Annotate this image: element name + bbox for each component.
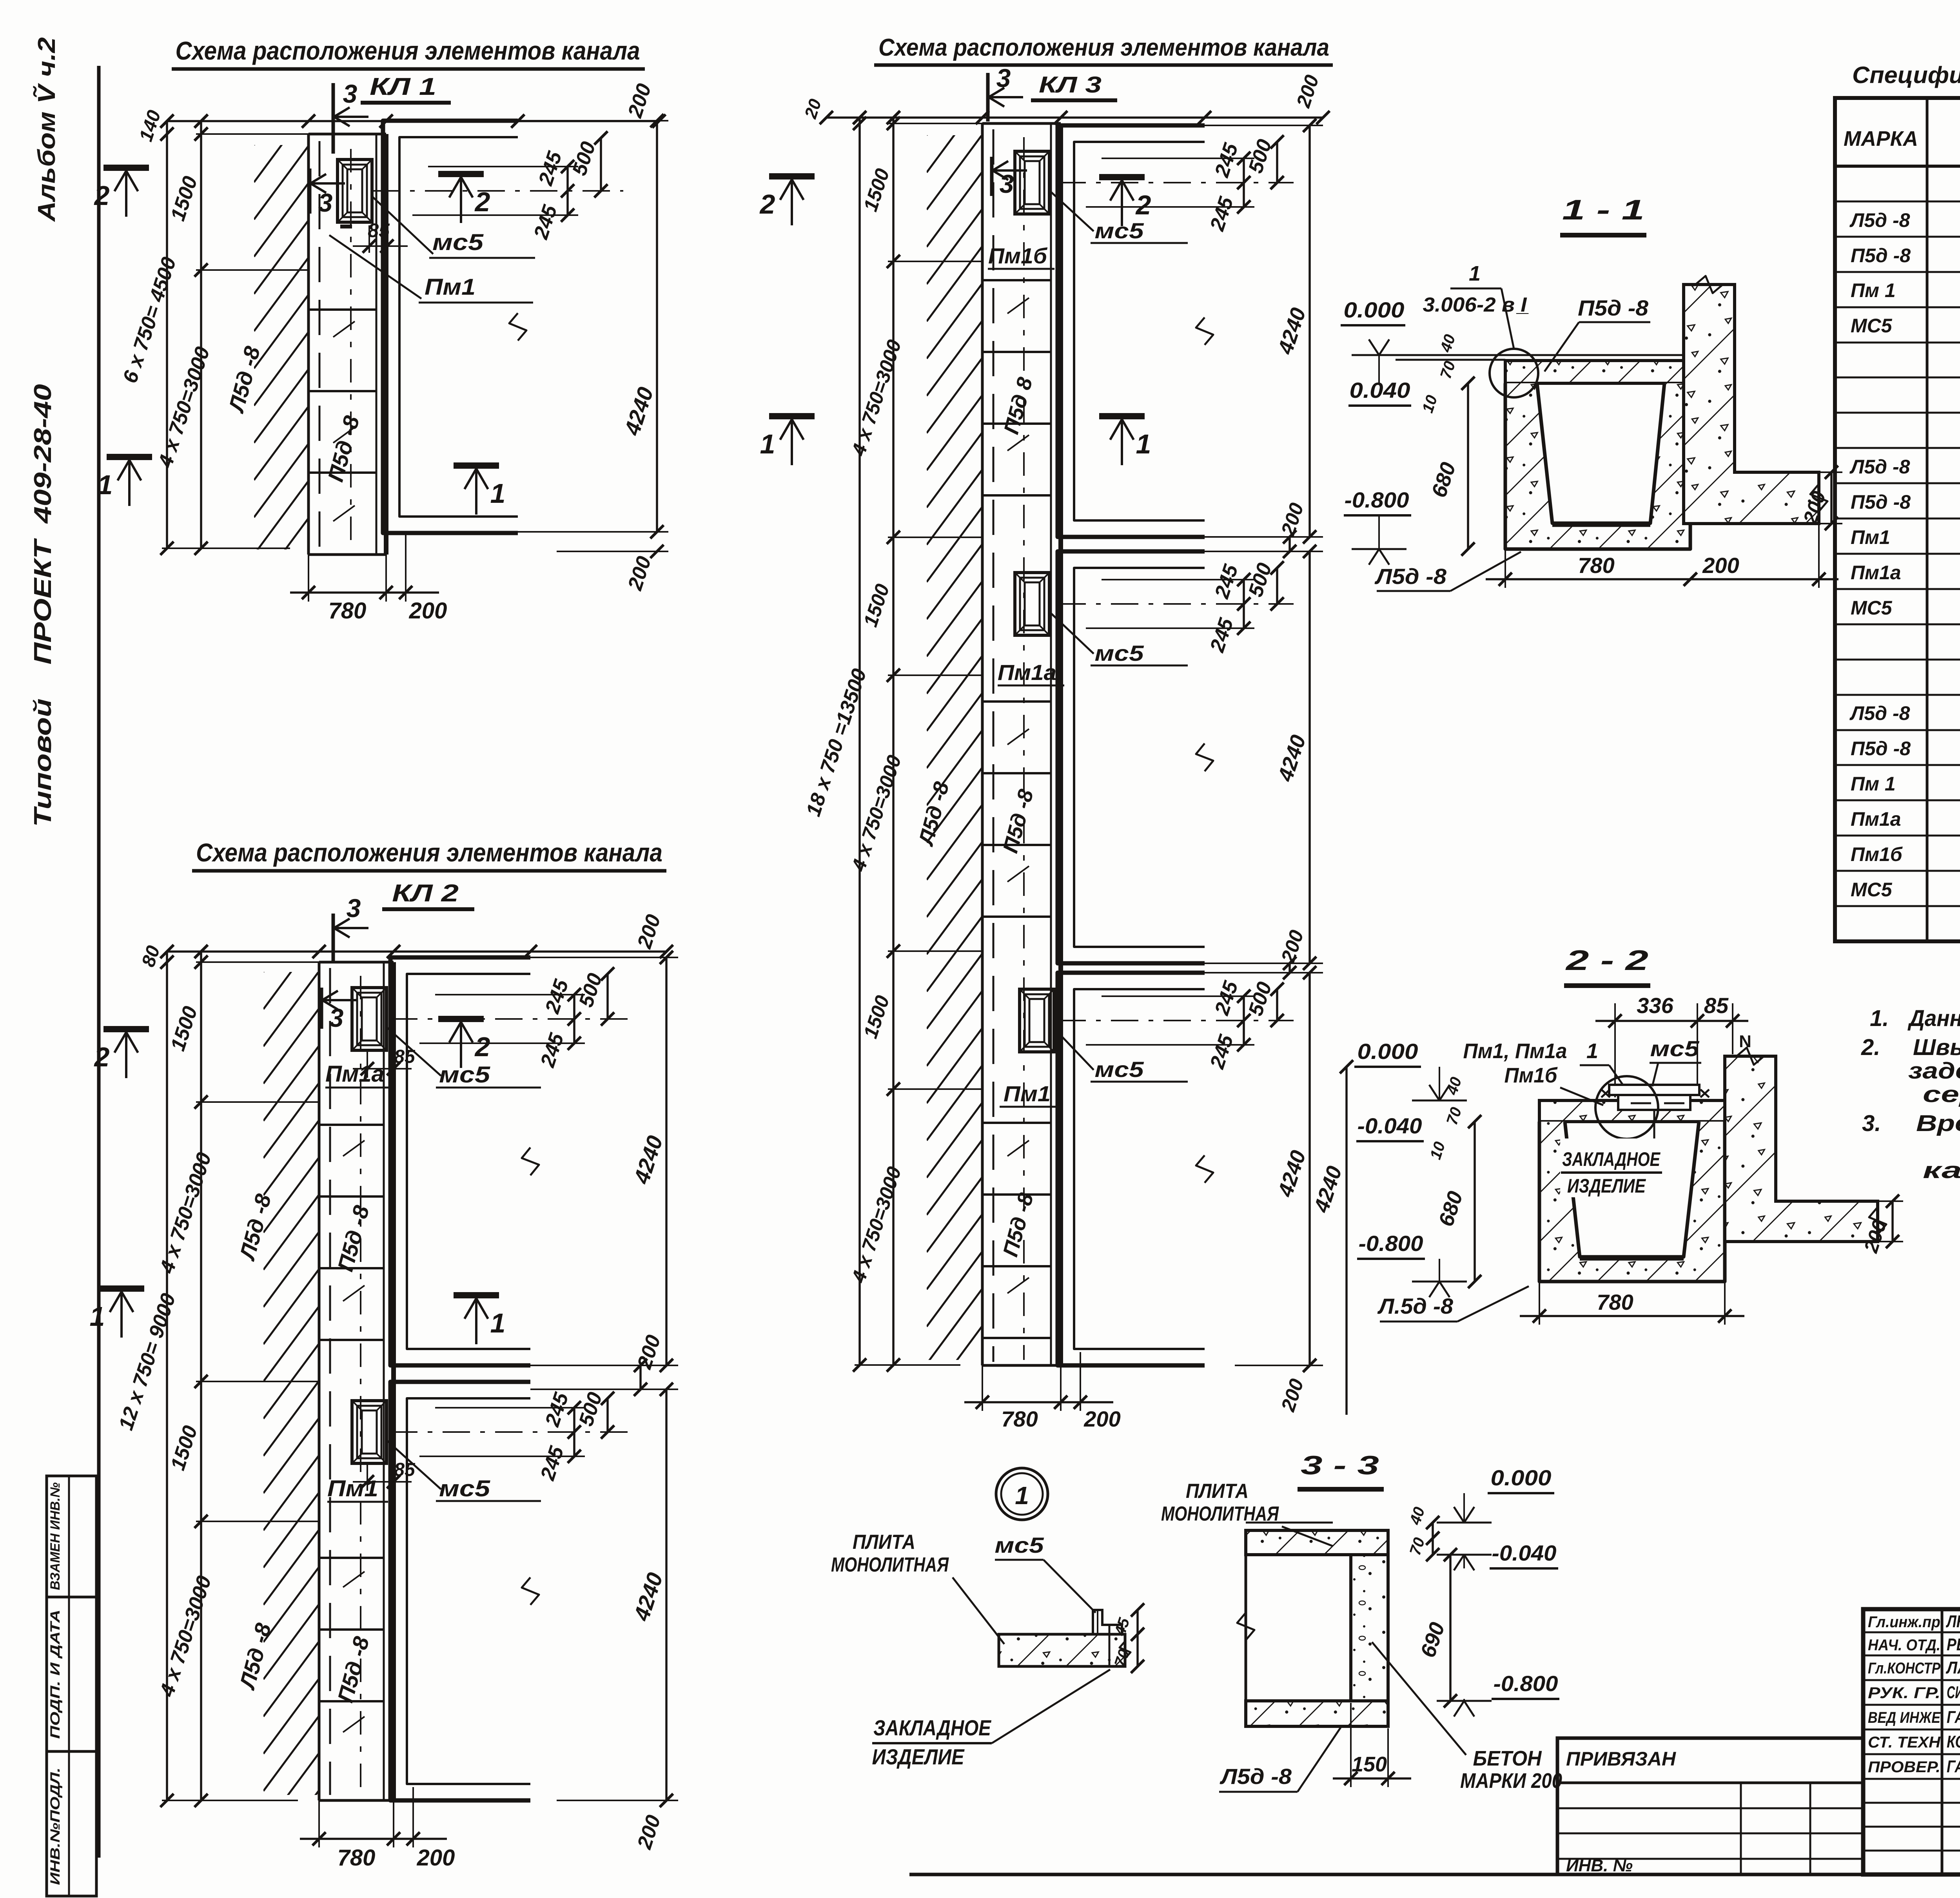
KL2 plate joints upper xyxy=(319,1124,384,1126)
svg-text:1: 1 xyxy=(1136,429,1151,459)
bottom sheet border line xyxy=(909,1873,1960,1876)
svg-text:3.006-2 в I̲: 3.006-2 в I̲ xyxy=(1423,294,1529,316)
section 1-1 bottom dim 200 xyxy=(1818,525,1820,588)
svg-text:ЗАКЛАДНОЕ: ЗАКЛАДНОЕ xyxy=(873,1715,991,1740)
svg-text:1: 1 xyxy=(1469,262,1481,285)
KL2 cut mark 3 top xyxy=(332,914,335,962)
svg-text:мс5: мс5 xyxy=(439,1062,490,1088)
svg-text:85: 85 xyxy=(368,219,390,241)
svg-text:1: 1 xyxy=(1586,1039,1598,1063)
section 3-3 interior lines xyxy=(1245,1530,1247,1726)
section 1-1 top slab P5d-8 hatched xyxy=(1505,361,1684,383)
KL2 right dim 200 bottom xyxy=(557,1800,678,1801)
svg-text:П5д -8: П5д -8 xyxy=(1851,738,1911,760)
svg-text:МС5: МС5 xyxy=(1851,597,1893,619)
svg-text:заделать цементным раствором м: заделать цементным раствором марки 50 по… xyxy=(1908,1058,1960,1084)
svg-text:Пм1а: Пм1а xyxy=(1851,808,1901,830)
svg-text:СИНЕЛЬНИКОВА: СИНЕЛЬНИКОВА xyxy=(1947,1683,1960,1702)
KL2 room cut arrow 2 xyxy=(438,1016,484,1022)
section 2-2 bottom dim 780 xyxy=(1539,1283,1540,1325)
svg-text:200: 200 xyxy=(417,1845,455,1871)
KL2 bottom dim 780 xyxy=(318,1800,320,1847)
svg-text:ВЗАМЕН ИНВ.№: ВЗАМЕН ИНВ.№ xyxy=(48,1482,63,1590)
KL3 mc5 embedded item 1 xyxy=(1015,151,1049,214)
svg-text:Пм1а: Пм1а xyxy=(1851,562,1901,584)
svg-text:200: 200 xyxy=(409,598,447,624)
svg-text:мс5: мс5 xyxy=(1650,1036,1700,1061)
KL1 cut mark 3 inner xyxy=(308,169,312,214)
detail 1 dims 70 45 xyxy=(1136,1610,1139,1666)
svg-text:Л5д -8: Л5д -8 xyxy=(1849,702,1910,724)
svg-text:3: 3 xyxy=(996,63,1011,92)
svg-text:ГАЛЬПЕРИНА: ГАЛЬПЕРИНА xyxy=(1947,1708,1960,1727)
svg-text:МОНОЛИТНАЯ: МОНОЛИТНАЯ xyxy=(1161,1503,1279,1525)
svg-text:ЗАКЛАДНОЕ: ЗАКЛАДНОЕ xyxy=(1562,1148,1661,1170)
KL2 mc5 embedded item lower xyxy=(352,1401,387,1463)
svg-text:1: 1 xyxy=(90,1301,105,1332)
svg-text:ИНВ. №: ИНВ. № xyxy=(1566,1856,1633,1875)
svg-text:КЛ 2: КЛ 2 xyxy=(392,880,459,907)
svg-text:-0.040: -0.040 xyxy=(1492,1541,1557,1565)
KL3 left dim chain inner xyxy=(892,118,895,1365)
KL2 margin cut arrow 2 xyxy=(103,1026,149,1032)
svg-text:П5д -8: П5д -8 xyxy=(1851,491,1911,513)
svg-text:ГАЛЬПЕРИНА: ГАЛЬПЕРИНА xyxy=(1947,1757,1960,1776)
svg-text:-0.040: -0.040 xyxy=(1357,1113,1422,1138)
svg-text:Альбом Ṽ ч.2: Альбом Ṽ ч.2 xyxy=(33,37,60,222)
KL1 label Pm1 with leader xyxy=(329,235,421,299)
KL1 room cut arrow 2 xyxy=(438,171,484,177)
KL1 left dim chain inner xyxy=(200,121,202,548)
KL1 cluster 245-245-500 xyxy=(428,166,578,167)
section 3-3 bottom band hatched xyxy=(1246,1701,1388,1726)
svg-text:МС5: МС5 xyxy=(1851,879,1893,901)
inventory stamps table bottom-left xyxy=(47,1476,96,1896)
svg-text:780: 780 xyxy=(1578,553,1614,578)
svg-text:1: 1 xyxy=(490,1308,506,1338)
svg-text:2 - 2: 2 - 2 xyxy=(1565,945,1648,976)
KL3 chamber room 2 xyxy=(1058,551,1205,963)
svg-text:ПЛИТА: ПЛИТА xyxy=(1186,1480,1249,1503)
KL3 label mc5 2 with leader xyxy=(1049,612,1094,654)
KL3 joint marks xyxy=(1007,298,1029,314)
KL2 cluster upper 245-245-500 xyxy=(435,994,585,995)
svg-text:2: 2 xyxy=(474,1031,490,1062)
KL2 chamber room lower xyxy=(390,1382,530,1800)
svg-text:Пм 1: Пм 1 xyxy=(1851,773,1896,795)
svg-text:РУК. ГР.: РУК. ГР. xyxy=(1868,1684,1940,1702)
KL2 cluster lower 245-245-500 xyxy=(435,1407,585,1409)
svg-text:ПОДП. И ДАТА: ПОДП. И ДАТА xyxy=(48,1610,63,1739)
svg-text:ЛАПКИН: ЛАПКИН xyxy=(1945,1658,1960,1677)
section 1-1 bottom dim 780 xyxy=(1504,551,1506,588)
svg-text:Типовой ПРОЕКТ 409-28-40: Типовой ПРОЕКТ 409-28-40 xyxy=(29,384,56,827)
section 1-1 dim 680 xyxy=(1467,383,1469,549)
svg-text:85: 85 xyxy=(1704,993,1729,1018)
KL2 label mc5 upper with leader xyxy=(386,1027,441,1076)
KL1 left dim chain outer xyxy=(166,121,168,548)
KL2 chamber room upper xyxy=(390,957,530,1365)
KL3 top dimension line xyxy=(826,116,1323,119)
KL2 cut mark 3 inner xyxy=(320,988,323,1029)
svg-text:мс5: мс5 xyxy=(432,230,484,255)
KL3 mc5 embedded item 2 xyxy=(1015,573,1049,635)
section 2-2 dim 680 xyxy=(1474,1122,1476,1282)
KL1 top dimension line xyxy=(167,120,659,122)
svg-text:П5д -8: П5д -8 xyxy=(1851,245,1911,266)
KL2 dim 85 upper xyxy=(367,1050,368,1078)
svg-text:780: 780 xyxy=(328,598,367,624)
svg-text:ПРИВЯЗАН: ПРИВЯЗАН xyxy=(1566,1748,1676,1770)
KL3 chamber room 3 xyxy=(1058,973,1205,1365)
svg-text:Гл.инж.пр: Гл.инж.пр xyxy=(1868,1613,1940,1631)
svg-text:Пм1а: Пм1а xyxy=(325,1061,384,1087)
KL3 cut mark 3 top xyxy=(986,73,990,121)
spec table outer border xyxy=(1835,98,1960,941)
svg-text:Л5д -8: Л5д -8 xyxy=(1849,456,1910,478)
svg-text:КЛ 3: КЛ 3 xyxy=(1039,72,1102,98)
svg-text:1 - 1: 1 - 1 xyxy=(1562,194,1644,226)
KL2 right dim 4240 lower xyxy=(665,1389,668,1800)
svg-text:ИЗДЕЛИЕ: ИЗДЕЛИЕ xyxy=(1567,1175,1646,1197)
section 2-2 dim 4240 rotated xyxy=(1345,1067,1348,1415)
svg-text:3.: 3. xyxy=(1862,1111,1881,1136)
KL3 channel strip xyxy=(981,123,984,1365)
KL3 label mc5 1 with leader xyxy=(1049,190,1094,231)
svg-text:мс5: мс5 xyxy=(1095,641,1144,665)
svg-text:Швы между лотками и плитами пе: Швы между лотками и плитами перекрытия к… xyxy=(1913,1035,1960,1060)
KL3 room cut arrow 1 xyxy=(1099,413,1145,419)
svg-text:МОНОЛИТНАЯ: МОНОЛИТНАЯ xyxy=(831,1554,949,1576)
KL2 left dim chain inner xyxy=(200,952,202,1800)
svg-text:85: 85 xyxy=(394,1459,416,1480)
KL3 plate joints xyxy=(982,279,1051,281)
title block signature table xyxy=(1941,1609,1944,1874)
svg-text:П5д -8: П5д -8 xyxy=(1578,295,1649,320)
svg-text:ИЗДЕЛИЕ: ИЗДЕЛИЕ xyxy=(872,1744,965,1769)
svg-text:2: 2 xyxy=(759,189,775,219)
svg-text:Схема расположения элементов к: Схема расположения элементов канала xyxy=(176,36,640,65)
svg-text:ЛЮБАВИН: ЛЮБАВИН xyxy=(1946,1612,1960,1631)
svg-text:-0.800: -0.800 xyxy=(1359,1231,1423,1256)
section 3-3 dim 150 xyxy=(1350,1703,1352,1787)
section 2-2 trough lotok xyxy=(1539,1122,1725,1282)
KL1 label mc5 with leader xyxy=(372,196,433,254)
KL3 mc5 embedded item 3 xyxy=(1020,989,1054,1052)
KL1 chamber room xyxy=(383,121,518,533)
svg-text:ПРОВЕР.: ПРОВЕР. xyxy=(1868,1758,1940,1776)
svg-text:Временная нормативная нагруз: Временная нормативная нагрузка на пол це… xyxy=(1916,1111,1960,1136)
title block outer border xyxy=(1863,1609,1960,1874)
svg-text:0.000: 0.000 xyxy=(1357,1039,1418,1064)
svg-text:Пм1: Пм1 xyxy=(1004,1081,1051,1106)
KL2 right dim 4240 upper xyxy=(530,957,678,958)
KL2 joint marks xyxy=(343,1140,365,1156)
KL1 joint marks xyxy=(333,321,355,337)
KL3 chamber room 1 xyxy=(1058,125,1205,537)
section 1-1 detail circle xyxy=(1490,349,1538,397)
section 1-1 trough lotok L5d-8 xyxy=(1505,383,1690,549)
KL3 cluster 3 245-245-500 xyxy=(1102,995,1254,997)
svg-text:200: 200 xyxy=(1083,1407,1120,1431)
svg-text:Схема расположения элементов к: Схема расположения элементов канала xyxy=(196,838,662,867)
privyazan box xyxy=(1557,1738,1863,1874)
svg-text:мс5: мс5 xyxy=(1095,1057,1144,1082)
svg-text:1: 1 xyxy=(490,478,506,509)
section 2-2 mc5 joint plates xyxy=(1609,1085,1699,1095)
detail 1 slab section hatched xyxy=(999,1634,1125,1666)
svg-text:Л5д -8: Л5д -8 xyxy=(1220,1764,1292,1789)
KL3 bottom dim 780 xyxy=(982,1365,983,1411)
svg-text:Л5д -8: Л5д -8 xyxy=(1374,564,1447,589)
svg-text:ВЕД ИНЖЕ: ВЕД ИНЖЕ xyxy=(1868,1709,1941,1726)
KL3 cluster 2 245-245-500 xyxy=(1102,579,1254,580)
svg-text:Пм1: Пм1 xyxy=(1851,526,1890,548)
section 2-2 wall right hatched xyxy=(1725,1056,1878,1242)
KL3 room cut arrow 2 xyxy=(1099,174,1145,180)
svg-text:336: 336 xyxy=(1637,993,1673,1018)
svg-text:200: 200 xyxy=(1702,553,1739,578)
KL2 margin cut arrow 1 xyxy=(99,1285,144,1292)
svg-text:Пм1а: Пм1а xyxy=(998,660,1056,685)
svg-text:780: 780 xyxy=(1597,1290,1633,1314)
svg-text:НАЧ. ОТД.: НАЧ. ОТД. xyxy=(1868,1637,1940,1654)
section 2-2 zakladnoe izdelie text xyxy=(1560,1138,1664,1197)
svg-text:0.000: 0.000 xyxy=(1344,297,1405,322)
spec table column lines xyxy=(1926,98,1929,941)
svg-text:Л.5д -8: Л.5д -8 xyxy=(1377,1294,1454,1318)
svg-text:МАРКА: МАРКА xyxy=(1844,127,1918,150)
section 2-2 top dim 336 and 85 xyxy=(1614,1003,1616,1097)
KL2 channel strip xyxy=(318,962,321,1800)
section 1-1 dim 200 right xyxy=(1735,471,1842,473)
svg-text:1: 1 xyxy=(760,429,775,459)
svg-text:780: 780 xyxy=(338,1845,376,1871)
svg-text:N: N xyxy=(1739,1032,1751,1051)
section 3-3 dims 70 40 xyxy=(1432,1523,1434,1555)
spec table header row line xyxy=(1835,165,1960,168)
KL1 cut mark 3 top xyxy=(332,83,335,154)
svg-text:камер принята 1000 кгс/м².: камер принята 1000 кгс/м². xyxy=(1923,1158,1960,1183)
svg-text:3: 3 xyxy=(1000,169,1014,198)
section 2-2 detail circle xyxy=(1595,1076,1658,1139)
svg-text:Гл.КОНСТР: Гл.КОНСТР xyxy=(1868,1660,1940,1677)
KL1 dim 85 xyxy=(368,225,370,253)
KL2 label mc5 lower with leader xyxy=(386,1440,441,1489)
svg-text:Пм 1: Пм 1 xyxy=(1851,279,1896,301)
svg-text:СТ. ТЕХН: СТ. ТЕХН xyxy=(1868,1734,1941,1751)
svg-text:КОРЫШЕВА: КОРЫШЕВА xyxy=(1947,1732,1960,1751)
svg-text:КЛ 1: КЛ 1 xyxy=(370,73,436,100)
svg-text:Пм1б: Пм1б xyxy=(1851,843,1903,865)
section 3-3 wall band keramzit xyxy=(1351,1555,1388,1701)
KL2 dim 85 lower xyxy=(367,1463,368,1491)
svg-text:Спецификация к схемам распо: Спецификация к схемам расположения элеме… xyxy=(1852,62,1960,88)
left sheet border line xyxy=(97,66,101,1858)
section 3-3 dim 690 xyxy=(1449,1555,1452,1701)
svg-text:Схема расположения элементов к: Схема расположения элементов канала xyxy=(878,34,1329,61)
section 1-1 wall right hatched xyxy=(1684,285,1819,524)
KL3 right dim column xyxy=(1205,125,1323,126)
svg-text:Пм1б: Пм1б xyxy=(988,243,1047,268)
svg-text:МАРКИ 200: МАРКИ 200 xyxy=(1460,1769,1562,1793)
KL3 margin cut arrow 1 xyxy=(769,413,815,419)
KL1 channel strip (lotok row) xyxy=(307,134,310,555)
svg-text:1: 1 xyxy=(1015,1481,1029,1510)
section 2-2 top slab Pm hatched xyxy=(1539,1100,1725,1122)
svg-text:-0.800: -0.800 xyxy=(1494,1671,1558,1696)
svg-text:3: 3 xyxy=(343,79,358,108)
KL1 bottom dim 780 xyxy=(308,555,309,602)
svg-text:МС5: МС5 xyxy=(1851,315,1893,337)
svg-text:мс5: мс5 xyxy=(439,1476,490,1501)
KL2 right dim 200 middle xyxy=(530,1389,678,1390)
svg-text:3 - 3: 3 - 3 xyxy=(1301,1450,1379,1480)
svg-text:3: 3 xyxy=(347,894,361,923)
svg-text:1: 1 xyxy=(98,470,113,500)
svg-text:РЫБКИНА: РЫБКИНА xyxy=(1947,1635,1960,1654)
KL1 plate joints xyxy=(309,308,376,311)
KL2 mc5 embedded item upper xyxy=(352,988,387,1050)
KL3 cut mark 3 inner xyxy=(990,157,994,196)
svg-text:Данный лист см. совместно с ли: Данный лист см. совместно с листом КЖ8-5… xyxy=(1907,1006,1960,1031)
KL2 left dim chain outer xyxy=(166,952,168,1800)
detail 1 circle mark xyxy=(996,1468,1048,1520)
KL1 dim 200 bottom right xyxy=(557,551,668,552)
KL3 left dim chain outer xyxy=(858,118,861,1365)
KL1 right dim 4240 xyxy=(518,120,668,121)
svg-text:2.: 2. xyxy=(1861,1035,1880,1060)
KL1 margin cut arrow 2 xyxy=(103,165,149,171)
detail 1 mc5 plates xyxy=(1093,1610,1122,1634)
svg-text:ПЛИТА: ПЛИТА xyxy=(853,1531,915,1554)
svg-text:БЕТОН: БЕТОН xyxy=(1473,1747,1542,1770)
svg-text:3: 3 xyxy=(329,1003,344,1032)
svg-text:серии 3.006-2 в I̲ лист 47.: серии 3.006-2 в I̲ лист 47. xyxy=(1923,1082,1960,1107)
svg-text:мс5: мс5 xyxy=(995,1533,1044,1557)
svg-text:Пм1, Пм1а: Пм1, Пм1а xyxy=(1463,1039,1567,1063)
section 2-2 dim 200 right xyxy=(1776,1200,1903,1202)
svg-text:2: 2 xyxy=(1135,190,1151,220)
svg-text:-0.800: -0.800 xyxy=(1345,488,1409,512)
svg-text:85: 85 xyxy=(394,1046,416,1067)
KL3 margin cut arrow 2 xyxy=(769,173,815,179)
KL2 plate joints lower xyxy=(319,1557,384,1559)
svg-text:мс5: мс5 xyxy=(1095,218,1144,243)
svg-text:Пм1: Пм1 xyxy=(425,274,475,300)
svg-text:2: 2 xyxy=(94,1042,110,1072)
KL2 top dimension line xyxy=(167,950,666,953)
KL1 mc5 embedded item xyxy=(338,160,372,222)
svg-text:780: 780 xyxy=(1001,1407,1038,1431)
spec table row lines xyxy=(1835,201,1960,203)
svg-text:ИНВ.№ПОДЛ.: ИНВ.№ПОДЛ. xyxy=(48,1767,63,1885)
KL1 room cut arrow 1 xyxy=(454,462,499,469)
section 3-3 monolithic slab top band hatched xyxy=(1246,1530,1388,1555)
svg-text:1.: 1. xyxy=(1870,1006,1889,1031)
svg-text:0.000: 0.000 xyxy=(1491,1465,1552,1490)
KL1 margin cut arrow 1 xyxy=(107,454,152,460)
svg-text:Л5д -8: Л5д -8 xyxy=(1849,209,1910,231)
KL3 cluster 1 245-245-500 xyxy=(1102,158,1254,159)
svg-text:150: 150 xyxy=(1352,1753,1387,1776)
KL2 room cut arrow 1 xyxy=(454,1292,499,1298)
svg-text:2: 2 xyxy=(94,180,110,211)
svg-text:Пм1б: Пм1б xyxy=(1504,1064,1558,1087)
KL3 label mc5 3 with leader xyxy=(1054,1028,1094,1070)
